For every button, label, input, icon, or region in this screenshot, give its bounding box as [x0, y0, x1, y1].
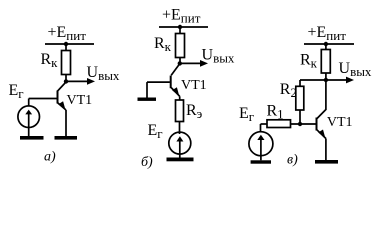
- svg-text:в): в): [287, 153, 298, 168]
- svg-text:VT1: VT1: [67, 93, 93, 108]
- svg-text:VT1: VT1: [327, 115, 353, 130]
- svg-text:VT1: VT1: [181, 78, 207, 93]
- svg-text:а): а): [44, 150, 56, 165]
- svg-text:б): б): [141, 155, 153, 170]
